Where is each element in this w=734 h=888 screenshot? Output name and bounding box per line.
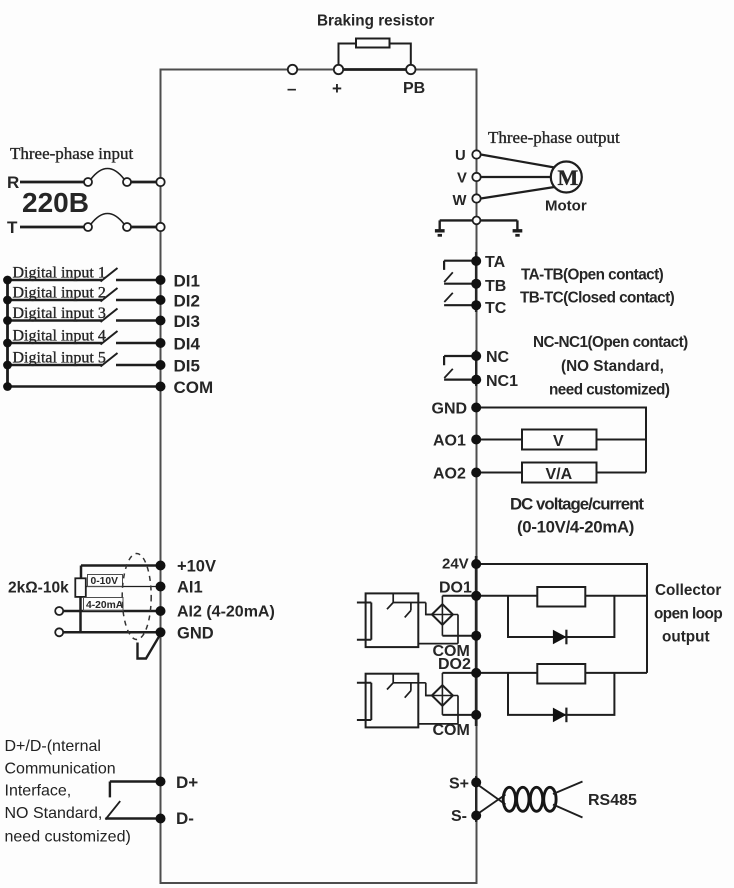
svg-text:DO2: DO2	[438, 656, 471, 673]
terminal V	[472, 173, 480, 181]
wire through diamond D3	[426, 673, 458, 715]
breaker contact T left	[84, 223, 92, 231]
node bus 5	[3, 361, 12, 370]
breaker contact R right	[123, 178, 131, 186]
relay coil R1	[537, 587, 585, 607]
node TA	[471, 256, 481, 266]
wire COM common	[8, 385, 161, 388]
svg-text:GND: GND	[432, 401, 468, 418]
breaker contact T right	[123, 223, 131, 231]
node GND analog	[156, 627, 166, 637]
twisted pair tails	[553, 782, 583, 818]
svg-text:(NO Standard,: (NO Standard,	[561, 358, 664, 375]
svg-text:TB: TB	[485, 278, 506, 295]
node D-	[156, 814, 166, 824]
wire collector U2 to diamond	[426, 683, 432, 696]
wire COM2	[442, 714, 476, 716]
relay blade TA-TB	[444, 272, 453, 282]
wire AO1	[476, 439, 646, 441]
wire GND analog	[63, 631, 160, 634]
wire right edge dark segment 24V-COM2	[475, 556, 478, 726]
node COM2	[471, 710, 481, 720]
optocoupler U1 transistors	[387, 593, 426, 617]
terminal AI2	[55, 607, 63, 615]
potentiometer body	[75, 578, 86, 597]
wire TB	[444, 283, 476, 285]
node +10V	[156, 561, 166, 571]
relay blade TB-TC	[444, 293, 453, 302]
node DI3	[156, 316, 166, 326]
svg-text:need customized): need customized)	[549, 382, 670, 399]
wire +10V	[81, 566, 161, 579]
digital input common bus	[6, 280, 9, 387]
breaker arc R	[91, 169, 124, 180]
braking resistor body	[356, 39, 390, 48]
terminal T on box	[156, 223, 164, 231]
svg-text:DI1: DI1	[174, 272, 200, 291]
svg-text:NC-NC1(Open contact): NC-NC1(Open contact)	[533, 334, 688, 351]
wire digital input 4	[8, 342, 161, 345]
svg-text:DC voltage/current: DC voltage/current	[510, 495, 644, 514]
potentiometer lower lead	[79, 597, 82, 632]
svg-text:M: M	[558, 165, 579, 190]
svg-text:Digital input 5: Digital input 5	[13, 350, 106, 367]
wire collector U1 to diamond	[426, 603, 432, 615]
node bus 4	[3, 339, 12, 348]
svg-text:Digital input 2: Digital input 2	[13, 285, 106, 302]
svg-text:DI3: DI3	[174, 312, 200, 331]
wire digital input 5	[8, 364, 161, 367]
diode D2	[553, 630, 567, 645]
terminal minus	[288, 65, 297, 74]
motor M1	[551, 162, 582, 193]
node DI1	[156, 275, 166, 285]
wire DO2	[442, 672, 647, 674]
svg-text:AI2 (4-20mA): AI2 (4-20mA)	[177, 604, 275, 621]
terminal PE	[473, 217, 481, 225]
box label 4-20mA	[84, 598, 124, 611]
terminal plus	[334, 65, 343, 74]
svg-text:D+: D+	[176, 773, 198, 792]
svg-text:–: –	[287, 79, 296, 98]
svg-text:0-10V: 0-10V	[91, 576, 119, 587]
rectifier diamond D3	[432, 685, 453, 706]
wire D-	[105, 817, 160, 819]
node NC	[471, 351, 481, 361]
node GND out	[471, 403, 481, 413]
svg-text:U: U	[455, 148, 466, 164]
svg-text:R: R	[7, 173, 19, 192]
wire bus bar plus to PB	[339, 68, 411, 71]
wire GND out	[476, 408, 646, 473]
svg-text:W: W	[453, 193, 467, 209]
wire TC	[444, 304, 476, 306]
shield drain wire	[138, 634, 161, 659]
node TB	[471, 279, 481, 289]
node COM left	[156, 382, 166, 392]
ground right	[516, 220, 518, 229]
svg-text:Motor: Motor	[545, 198, 587, 215]
svg-text:AO2: AO2	[433, 466, 466, 483]
svg-text:220B: 220B	[22, 187, 89, 218]
switch digital input 3	[101, 309, 118, 323]
node AI2	[156, 606, 166, 616]
node bus 1	[3, 276, 12, 285]
svg-text:COM: COM	[433, 722, 470, 739]
wire AI2	[63, 610, 160, 613]
terminal U	[472, 150, 480, 158]
shield ellipse	[122, 554, 151, 640]
relay NC contact	[444, 356, 476, 365]
breaker arc T	[91, 214, 124, 225]
svg-text:DI5: DI5	[174, 357, 200, 376]
switch digital input 1	[101, 268, 118, 282]
svg-text:(0-10V/4-20mA): (0-10V/4-20mA)	[517, 518, 634, 537]
svg-text:S+: S+	[449, 776, 469, 793]
node D+	[156, 777, 166, 787]
svg-text:COM: COM	[174, 378, 214, 397]
breaker contact R left	[84, 178, 92, 186]
svg-text:Three-phase output: Three-phase output	[488, 128, 620, 147]
wire 24V	[476, 564, 647, 673]
node DI5	[156, 360, 166, 370]
wire braking resistor loop	[339, 44, 411, 70]
ground left	[439, 220, 441, 229]
switch digital input 2	[101, 288, 118, 302]
box label 0-10V	[88, 575, 123, 587]
node S+	[471, 777, 481, 787]
svg-text:Braking resistor: Braking resistor	[317, 13, 434, 30]
node bus 3	[3, 316, 12, 325]
wire S- twisted pair	[478, 795, 506, 815]
node TC	[471, 300, 481, 310]
wire R phase	[20, 181, 157, 184]
terminal PB	[406, 65, 415, 74]
terminal W	[472, 194, 480, 202]
wire emitter U1	[418, 615, 458, 644]
svg-text:need customized): need customized)	[5, 829, 131, 846]
relay TA contact	[444, 261, 476, 270]
svg-text:TC: TC	[485, 300, 507, 317]
svg-text:Digital input 4: Digital input 4	[13, 328, 106, 345]
svg-text:Communication: Communication	[5, 761, 116, 778]
svg-text:TB-TC(Closed contact): TB-TC(Closed contact)	[520, 290, 675, 307]
wire digital input 3	[8, 319, 161, 322]
svg-text:TA-TB(Open contact): TA-TB(Open contact)	[521, 267, 664, 284]
svg-text:Interface,: Interface,	[5, 783, 72, 800]
svg-text:+10V: +10V	[177, 558, 216, 576]
node NC1	[471, 375, 481, 385]
diode D4	[553, 708, 567, 723]
wire S+ twisted pair	[478, 785, 506, 805]
node S-	[471, 811, 481, 821]
svg-text:PB: PB	[403, 80, 425, 97]
optocoupler U1 box	[366, 593, 419, 647]
svg-text:S-: S-	[451, 808, 467, 825]
optocoupler U1 input leads	[357, 603, 371, 640]
node bus COM	[3, 382, 12, 391]
svg-text:V/A: V/A	[546, 466, 573, 483]
svg-text:24V: 24V	[442, 556, 469, 573]
wire AO2	[476, 472, 646, 474]
svg-text:output: output	[662, 629, 710, 646]
svg-text:Three-phase input: Three-phase input	[10, 144, 133, 163]
wire digital input 2	[8, 299, 161, 302]
terminal GND analog	[55, 628, 63, 636]
node 24V	[471, 559, 481, 569]
svg-text:Collector: Collector	[655, 582, 721, 599]
inverter main box outline	[161, 70, 477, 884]
wire right edge dark segment S+ S-	[475, 776, 477, 822]
svg-text:NC1: NC1	[486, 373, 518, 390]
load branch DO1	[508, 596, 614, 637]
meter V	[522, 430, 597, 450]
svg-text:2kΩ-10k: 2kΩ-10k	[8, 580, 69, 597]
node DI4	[156, 338, 166, 348]
svg-text:NC: NC	[486, 349, 510, 366]
svg-text:AO1: AO1	[433, 433, 466, 450]
wire DO1	[442, 595, 647, 597]
node DO2	[471, 668, 481, 678]
wire right edge dark segment TA-TC	[475, 252, 478, 312]
svg-text:Digital input 3: Digital input 3	[13, 305, 106, 322]
wire V to motor	[481, 176, 551, 178]
node DO1	[471, 591, 481, 601]
node bus 2	[3, 296, 12, 305]
wire COM1	[442, 635, 476, 637]
svg-text:AI1: AI1	[177, 579, 203, 597]
switch digital input 5	[101, 353, 118, 367]
wire digital input 1	[8, 279, 161, 282]
svg-text:NO Standard,: NO Standard,	[5, 805, 103, 822]
node COM1	[471, 631, 481, 641]
wire W to motor	[481, 187, 555, 199]
svg-text:D-: D-	[176, 809, 194, 828]
switch digital input 4	[101, 331, 118, 345]
svg-text:GND: GND	[177, 624, 214, 642]
svg-text:V: V	[457, 171, 467, 187]
svg-text:RS485: RS485	[588, 792, 637, 809]
wire emitter U2	[418, 696, 458, 724]
terminal R on box	[156, 178, 164, 186]
wire NC1	[444, 379, 476, 381]
svg-text:+: +	[332, 79, 342, 98]
wire U to motor	[481, 155, 555, 168]
svg-text:4-20mA: 4-20mA	[86, 600, 124, 611]
node AO1	[471, 435, 481, 445]
wire D+	[110, 782, 161, 798]
switch D	[105, 801, 120, 819]
wire PE ground	[440, 219, 518, 221]
svg-text:T: T	[7, 218, 18, 237]
rectifier diamond D1	[432, 604, 453, 625]
node AI1	[156, 582, 166, 592]
wire T phase	[20, 226, 157, 229]
wire right edge dark segment NC-NC1	[475, 350, 477, 386]
svg-text:open loop: open loop	[654, 606, 722, 623]
svg-text:DI4: DI4	[174, 335, 201, 354]
wire through diamond D1	[426, 596, 458, 636]
svg-text:V: V	[553, 433, 564, 450]
optocoupler U2 input leads	[357, 683, 371, 720]
svg-text:D+/D-(nternal: D+/D-(nternal	[5, 738, 101, 755]
optocoupler U2 box	[366, 674, 419, 728]
node DI2	[156, 295, 166, 305]
optocoupler U2 transistors	[387, 674, 426, 698]
svg-text:TA: TA	[485, 254, 506, 271]
twisted pair loops	[503, 787, 515, 811]
relay coil R2	[537, 664, 585, 684]
load branch DO2	[508, 673, 614, 715]
svg-text:DO1: DO1	[439, 580, 472, 597]
svg-text:DI2: DI2	[174, 292, 200, 311]
relay blade NC-NC1	[444, 369, 453, 378]
wire AI1 wiper	[86, 586, 161, 588]
svg-text:Digital input 1: Digital input 1	[13, 265, 106, 282]
node AO2	[471, 468, 481, 478]
meter V/A	[522, 463, 597, 483]
